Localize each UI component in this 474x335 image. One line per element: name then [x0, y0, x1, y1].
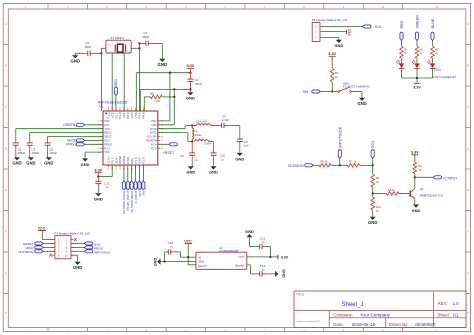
svg-text:17: 17: [98, 121, 100, 123]
svg-text:27: 27: [161, 121, 163, 123]
svg-text:C5: C5: [180, 154, 184, 158]
svg-text:1u: 1u: [105, 185, 109, 189]
svg-text:GND: GND: [153, 258, 157, 267]
svg-text:GND: GND: [107, 45, 112, 47]
svg-text:N_INPUT: N_INPUT: [443, 176, 457, 180]
svg-text:3.3V: 3.3V: [187, 64, 195, 68]
svg-text:VDD_PA: VDD_PA: [146, 135, 156, 139]
svg-text:Your Company: Your Company: [360, 313, 391, 318]
svg-text:14: 14: [115, 168, 117, 170]
svg-text:VCC: VCC: [348, 28, 352, 36]
svg-text:GREEN: GREEN: [415, 15, 419, 29]
svg-text:31: 31: [119, 107, 121, 109]
svg-text:IN: IN: [198, 255, 201, 259]
svg-text:lceda.cn/user/dmitr0627: lceda.cn/user/dmitr0627: [297, 320, 321, 323]
svg-text:PROG: PROG: [66, 143, 76, 147]
svg-text:Aenb/T: Aenb/T: [198, 264, 207, 268]
svg-text:SOL: SOL: [370, 139, 375, 148]
svg-text:GND: GND: [245, 229, 254, 234]
svg-text:R8 1k: R8 1k: [388, 188, 396, 192]
svg-text:R6: R6: [150, 92, 154, 96]
svg-text:VCC: VCC: [184, 239, 192, 243]
svg-text:REV:: REV:: [438, 301, 448, 306]
svg-text:MMBT2222ALT1G: MMBT2222ALT1G: [420, 193, 443, 197]
svg-text:VSS: VSS: [151, 123, 156, 127]
svg-text:20: 20: [161, 148, 163, 150]
svg-text:P1.4: P1.4: [151, 142, 157, 146]
svg-text:1.5pF: 1.5pF: [222, 118, 229, 122]
svg-text:DEC2: DEC2: [104, 135, 111, 139]
svg-text:P1.3: P1.3: [151, 146, 157, 150]
svg-text:ANT1: ANT1: [150, 131, 157, 135]
svg-text:P1.5: P1.5: [142, 157, 146, 164]
svg-text:R2: R2: [420, 47, 424, 51]
svg-text:32: 32: [123, 107, 125, 109]
svg-text:OUT/MOSI: OUT/MOSI: [288, 164, 304, 168]
svg-text:1: 1: [127, 107, 128, 109]
svg-text:22k: 22k: [155, 99, 160, 103]
svg-text:4: 4: [139, 107, 140, 109]
svg-text:100nF: 100nF: [194, 82, 202, 86]
svg-text:SW: SW: [303, 90, 309, 94]
svg-text:C6: C6: [18, 147, 22, 151]
svg-text:VDD: VDD: [151, 119, 157, 123]
svg-text:RED: RED: [114, 79, 118, 87]
svg-text:GND: GND: [186, 170, 195, 175]
svg-text:R7 1k: R7 1k: [349, 159, 357, 163]
svg-text:GND: GND: [94, 197, 103, 202]
svg-text:100nF: 100nF: [49, 151, 57, 155]
svg-text:TITLE:: TITLE:: [296, 293, 305, 297]
svg-text:1u: 1u: [262, 240, 266, 244]
svg-text:L1 4.7nH: L1 4.7nH: [196, 119, 207, 123]
svg-text:GND: GND: [357, 101, 366, 106]
svg-text:3.3V: 3.3V: [281, 255, 289, 259]
svg-text:3.3V: 3.3V: [411, 151, 419, 155]
svg-text:GND: GND: [81, 162, 90, 167]
svg-text:GND: GND: [281, 269, 285, 278]
svg-text:GND: GND: [70, 59, 80, 64]
svg-text:GND: GND: [73, 265, 82, 270]
svg-text:13: 13: [119, 168, 121, 170]
svg-text:3: 3: [135, 107, 136, 109]
svg-text:P2 Header-Male-2.54_2x5: P2 Header-Male-2.54_2x5: [55, 232, 91, 236]
svg-text:1u: 1u: [170, 244, 174, 248]
svg-text:X1 16MHz: X1 16MHz: [110, 36, 125, 40]
svg-text:22: 22: [161, 140, 163, 142]
svg-text:GND: GND: [368, 220, 377, 225]
svg-text:RED: RED: [400, 20, 404, 28]
svg-text:SOL: SOL: [375, 25, 382, 29]
svg-text:1u: 1u: [221, 158, 224, 162]
svg-text:GREEN: GREEN: [63, 123, 76, 127]
svg-text:GND: GND: [124, 51, 129, 53]
svg-text:D: D: [467, 147, 469, 150]
svg-text:C7: C7: [32, 147, 36, 151]
svg-text:R1: R1: [404, 47, 408, 51]
svg-text:1u: 1u: [195, 158, 198, 162]
svg-text:H: H: [5, 312, 7, 315]
svg-text:RESET#: RESET#: [146, 139, 157, 143]
svg-text:P0.6: P0.6: [142, 112, 146, 119]
svg-text:16: 16: [107, 168, 109, 170]
svg-text:Drawn By:: Drawn By:: [389, 322, 409, 327]
svg-text:SW: SW: [142, 190, 146, 195]
svg-text:GND: GND: [334, 43, 343, 48]
svg-text:GND: GND: [157, 62, 167, 67]
svg-text:GND: GND: [198, 260, 204, 264]
svg-text:Q1: Q1: [420, 187, 424, 191]
svg-text:G: G: [467, 272, 469, 275]
svg-text:Company:: Company:: [333, 313, 353, 318]
svg-text:G: G: [5, 272, 7, 275]
svg-text:P1 Header-Male-2.54_1x3: P1 Header-Male-2.54_1x3: [312, 18, 348, 22]
svg-text:5: 5: [143, 107, 144, 109]
svg-text:1/1: 1/1: [453, 313, 460, 318]
svg-text:D: D: [5, 147, 7, 150]
svg-text:DEC1: DEC1: [104, 131, 111, 135]
svg-text:OUT: OUT: [238, 255, 244, 259]
svg-text:RESET: RESET: [164, 151, 175, 155]
svg-text:H: H: [467, 312, 469, 315]
svg-text:24: 24: [98, 148, 100, 150]
svg-text:6.8nH: 6.8nH: [204, 142, 211, 146]
svg-text:2019-05-16: 2019-05-16: [352, 322, 376, 327]
svg-text:INPUT/SCK: INPUT/SCK: [337, 127, 342, 149]
svg-text:VSS: VSS: [104, 150, 109, 154]
svg-text:C: C: [467, 106, 469, 109]
svg-text:PAD: PAD: [104, 119, 109, 123]
svg-text:U1: U1: [99, 105, 103, 109]
svg-text:1.0: 1.0: [453, 301, 460, 306]
svg-text:C8: C8: [49, 147, 53, 151]
svg-text:C10: C10: [220, 154, 226, 158]
svg-text:VCC: VCC: [38, 226, 46, 230]
svg-text:P0.3: P0.3: [104, 146, 110, 150]
svg-text:10: 10: [65, 253, 69, 257]
svg-text:GND: GND: [186, 96, 195, 101]
svg-text:100nF: 100nF: [18, 151, 26, 155]
svg-text:26: 26: [161, 125, 163, 127]
svg-text:P0.2: P0.2: [104, 139, 110, 143]
svg-text:BLUE: BLUE: [431, 18, 435, 28]
svg-text:R3: R3: [435, 47, 439, 51]
svg-text:15pF: 15pF: [84, 45, 91, 49]
svg-text:R5 1k: R5 1k: [321, 159, 329, 163]
svg-text:15pF: 15pF: [142, 35, 149, 39]
svg-text:GND: GND: [12, 161, 21, 166]
svg-text:Bypass: Bypass: [235, 263, 245, 267]
svg-text:VDD: VDD: [104, 127, 110, 131]
svg-text:GND: GND: [44, 161, 53, 166]
svg-text:GND: GND: [235, 156, 244, 161]
svg-text:PROG: PROG: [104, 142, 112, 146]
svg-text:K2-1107ST-A4SW-06: K2-1107ST-A4SW-06: [343, 85, 370, 89]
svg-text:dmitr0627: dmitr0627: [415, 322, 436, 327]
svg-text:2: 2: [131, 107, 132, 109]
svg-text:L2: L2: [194, 129, 198, 133]
svg-text:3.3V: 3.3V: [413, 86, 421, 90]
svg-text:C: C: [5, 106, 7, 109]
svg-text:LED1: LED1: [434, 67, 442, 71]
svg-text:L3: L3: [199, 136, 203, 140]
svg-text:1pF: 1pF: [244, 144, 249, 148]
svg-text:Date:: Date:: [333, 322, 343, 327]
svg-text:30: 30: [115, 107, 117, 109]
svg-text:28: 28: [107, 107, 109, 109]
svg-text:23: 23: [161, 136, 163, 138]
svg-text:3.3V: 3.3V: [328, 52, 336, 56]
svg-text:GND: GND: [412, 209, 421, 213]
svg-text:LP2M6206N3R: LP2M6206N3R: [219, 249, 238, 253]
svg-text:INPUT/SCK: INPUT/SCK: [94, 250, 111, 254]
svg-text:GND: GND: [209, 170, 218, 175]
svg-text:GND: GND: [26, 161, 35, 166]
svg-text:Sheet:: Sheet:: [438, 313, 450, 318]
svg-text:OUT/MOSI: OUT/MOSI: [18, 250, 33, 254]
svg-text:P0.1: P0.1: [104, 123, 110, 127]
svg-text:LTST-C19HE1WT: LTST-C19HE1WT: [433, 75, 456, 79]
svg-text:ANT2: ANT2: [150, 127, 157, 131]
svg-text:Sheet_1: Sheet_1: [342, 302, 365, 308]
svg-text:3.3V: 3.3V: [95, 168, 103, 172]
svg-text:1u: 1u: [262, 267, 266, 271]
svg-text:29: 29: [111, 107, 113, 109]
svg-text:100nF: 100nF: [32, 151, 40, 155]
